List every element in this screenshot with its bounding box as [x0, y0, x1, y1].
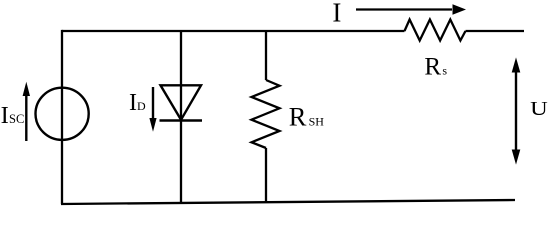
- svg-text:SC: SC: [9, 112, 24, 126]
- svg-text:SH: SH: [309, 114, 325, 128]
- wire Rsh branch top: [265, 31, 267, 80]
- resistor Rs zigzag: [405, 20, 466, 41]
- diode D cathode bar: [160, 119, 203, 122]
- wire bottom: [61, 200, 515, 204]
- wire top-left segment: [62, 30, 405, 32]
- arrow Id (down): [152, 87, 154, 119]
- arrow U (double vertical): [515, 70, 517, 152]
- diode D triangle: [161, 85, 202, 120]
- resistor RSH zigzag: [252, 80, 280, 148]
- current source Isc circle: [36, 88, 89, 140]
- svg-text:I: I: [1, 102, 9, 129]
- svg-text:R: R: [289, 101, 307, 131]
- svg-text:s: s: [442, 63, 447, 77]
- wire left vertical: [61, 30, 63, 204]
- svg-text:R: R: [424, 53, 441, 80]
- svg-text:I: I: [332, 0, 341, 27]
- svg-text:U: U: [530, 98, 548, 120]
- svg-text:I: I: [129, 90, 137, 116]
- wire top-right segment: [466, 30, 525, 32]
- wire diode branch vertical: [180, 31, 182, 203]
- wire Rsh branch bottom: [265, 148, 267, 203]
- svg-text:D: D: [137, 99, 146, 113]
- arrow Isc (up): [25, 94, 27, 141]
- arrow I (right): [356, 8, 452, 10]
